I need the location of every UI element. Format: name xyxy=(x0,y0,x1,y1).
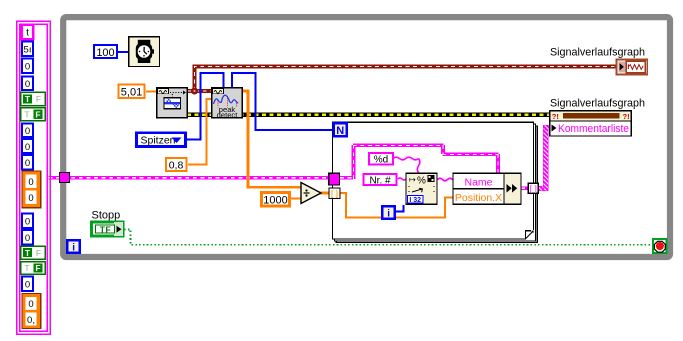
svg-text:0,: 0, xyxy=(27,315,35,326)
wire: green dotted from Stopp to loop condition terminal xyxy=(124,230,652,245)
cluster element: boolean true xyxy=(21,92,46,106)
svg-text:F: F xyxy=(35,109,40,119)
svg-text:?!: ?! xyxy=(623,112,630,121)
cluster element: numeric 0 xyxy=(22,59,33,74)
svg-text:0: 0 xyxy=(25,126,30,137)
svg-text:F: F xyxy=(36,248,41,258)
cluster element: numeric 0 xyxy=(22,124,33,138)
svg-text:0: 0 xyxy=(25,233,30,244)
cluster element: numeric 0 xyxy=(22,230,33,245)
string constant Nr. # xyxy=(364,174,397,186)
svg-text:Nr. #: Nr. # xyxy=(369,175,391,186)
svg-text:Signalverlaufsgraph: Signalverlaufsgraph xyxy=(550,47,645,59)
numeric constant 100 xyxy=(94,45,117,59)
for loop stacked frame 3 xyxy=(336,126,537,243)
for loop main frame xyxy=(333,122,534,239)
Stopp boolean terminal xyxy=(92,222,124,236)
svg-text:Signalverlaufsgraph: Signalverlaufsgraph xyxy=(550,98,645,110)
svg-text:T: T xyxy=(24,109,29,119)
svg-text:0: 0 xyxy=(25,142,30,153)
svg-text:%: % xyxy=(417,176,426,187)
wait (ms) function icon xyxy=(129,37,160,67)
wire: orange from 5,01 to signal generator xyxy=(146,90,156,92)
svg-text:F: F xyxy=(35,263,40,273)
cluster element: string 't' xyxy=(22,25,34,40)
for loop stacked frame 2 xyxy=(334,124,535,241)
svg-text:0: 0 xyxy=(28,299,33,310)
numeric constant 5,01 xyxy=(119,85,145,99)
wire: waveform (dark red dashed) signal gen to graph terminal xyxy=(188,67,616,92)
svg-text:5ı: 5ı xyxy=(24,45,32,56)
cluster element: inner cluster of two doubles xyxy=(22,171,41,208)
svg-text:0: 0 xyxy=(28,193,33,204)
cluster element: numeric 0 xyxy=(22,277,33,292)
wire: blue from i to format node xyxy=(396,205,404,212)
cluster constant border xyxy=(17,21,51,334)
tunnel: magenta auto-indexing output on for loop right border xyxy=(528,183,538,193)
wire: blue from Spitzen enum up over to peak detect xyxy=(187,73,224,140)
divide function xyxy=(301,183,321,204)
while loop border xyxy=(63,17,670,257)
svg-text:T: T xyxy=(25,94,31,104)
cluster element: boolean false xyxy=(21,108,46,121)
waveform graph terminal xyxy=(617,60,648,75)
wire: string wavy format node to bundle xyxy=(438,178,454,181)
enum constant Spitzen xyxy=(137,133,186,147)
cluster element: numeric 5 xyxy=(22,42,33,57)
while loop iteration terminal i xyxy=(67,240,80,253)
cluster element: inner cluster of two doubles xyxy=(22,294,41,329)
svg-text:Kommentarliste: Kommentarliste xyxy=(558,123,629,135)
wire: cluster (magenta dashed) from cluster constant to for loop xyxy=(49,176,331,180)
svg-text:i: i xyxy=(387,208,390,219)
svg-text:i: i xyxy=(72,243,75,254)
numeric constant 1000 xyxy=(262,193,290,207)
wire: blue from 100 to wait ms xyxy=(118,51,129,53)
svg-text:0: 0 xyxy=(25,217,30,228)
junction dot on waveform wire xyxy=(191,88,198,95)
wire: orange from 0,8 to peak detect xyxy=(188,99,212,165)
svg-text:Name: Name xyxy=(464,176,492,188)
svg-text:T: T xyxy=(24,263,29,273)
wire: blue from peak detect up over down to N terminal xyxy=(232,73,333,130)
cluster element: numeric 0 xyxy=(22,214,33,229)
for loop iteration terminal i xyxy=(382,206,395,219)
cluster element: numeric 0 xyxy=(22,155,33,170)
svg-text:detect: detect xyxy=(217,111,239,120)
wire: string wavy %d to format node xyxy=(393,157,420,173)
wire: hatched array-of-clusters from tunnel up to property node xyxy=(538,125,553,190)
svg-text:Spitzen: Spitzen xyxy=(141,135,176,147)
svg-text:5,01: 5,01 xyxy=(121,87,142,99)
svg-text:Stopp: Stopp xyxy=(92,210,121,222)
svg-text:%d: %d xyxy=(374,155,388,166)
while loop condition terminal (stop sign) xyxy=(653,239,667,253)
wire: cluster dashed bundle output to tunnel xyxy=(521,187,529,191)
svg-text:0: 0 xyxy=(25,79,30,90)
svg-text:N: N xyxy=(336,125,344,137)
svg-text:0: 0 xyxy=(25,62,30,73)
bundle by name node xyxy=(453,173,521,204)
peak detect icon xyxy=(212,88,242,120)
svg-text:[ ]: [ ] xyxy=(331,188,338,198)
cluster element: numeric 0 xyxy=(22,77,33,91)
svg-text:I 32: I 32 xyxy=(409,197,421,204)
wire: orange array inside for loop to Position.X xyxy=(340,193,453,217)
wire: orange from 1000 to divide xyxy=(291,198,301,200)
wire: error cluster (olive dashed) from signal generator to property node xyxy=(187,113,550,117)
svg-text:0: 0 xyxy=(28,177,33,188)
svg-text:?!: ?! xyxy=(552,112,559,121)
for loop folded corner xyxy=(525,230,535,239)
svg-text:F: F xyxy=(36,94,41,104)
svg-text:0: 0 xyxy=(25,158,30,169)
numeric constant 0,8 xyxy=(166,158,187,172)
cluster element: boolean true xyxy=(21,246,46,259)
svg-text:Position.X: Position.X xyxy=(455,192,502,204)
tunnel: cluster wire through while loop border xyxy=(60,173,70,183)
tunnel: orange auto-indexing input on for loop left border xyxy=(329,188,340,199)
cluster element: boolean false xyxy=(21,262,46,275)
svg-text:100: 100 xyxy=(96,47,114,59)
svg-text:1000: 1000 xyxy=(263,195,287,207)
property node xyxy=(550,111,632,136)
wire: orange divide output to for loop tunnel xyxy=(319,192,330,195)
wire: orange array from peak detect down to divide xyxy=(243,91,302,187)
svg-text:t: t xyxy=(26,28,29,39)
cluster element: numeric 0 xyxy=(22,139,33,153)
wire: string wavy Nr.# to format node xyxy=(398,178,406,180)
signal generator by duration icon xyxy=(157,88,187,118)
svg-text:0,8: 0,8 xyxy=(169,160,184,172)
svg-text:0: 0 xyxy=(25,280,30,291)
wire: cluster magenta dashed inside for loop xyxy=(340,145,499,179)
string constant %d xyxy=(369,153,393,166)
svg-text:↦: ↦ xyxy=(409,175,416,184)
svg-text:T: T xyxy=(25,248,31,258)
for loop count terminal N xyxy=(334,123,347,137)
format into string node xyxy=(406,173,437,204)
svg-text:TF: TF xyxy=(100,225,111,235)
tunnel: magenta cluster input on for loop left border xyxy=(329,173,340,185)
svg-text:[ ]: [ ] xyxy=(530,183,537,193)
